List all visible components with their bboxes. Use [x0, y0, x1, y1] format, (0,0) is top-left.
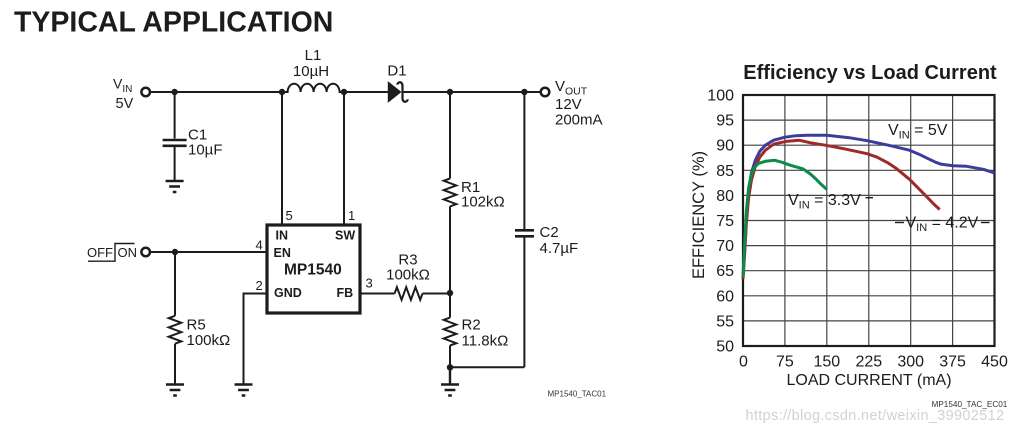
diode D1: [388, 82, 407, 102]
wire GND pin to ground: [244, 294, 268, 384]
svg-text:ON: ON: [118, 245, 138, 260]
capacitor C2: [515, 230, 534, 367]
chart curve VIN 3.3V green: [743, 160, 827, 276]
svg-text:50: 50: [716, 339, 734, 356]
svg-text:85: 85: [716, 163, 734, 180]
svg-text:102kΩ: 102kΩ: [461, 194, 505, 211]
inductor L1: [282, 84, 344, 92]
node EN terminal: [141, 248, 150, 257]
svg-text:GND: GND: [274, 286, 302, 300]
svg-text:3: 3: [366, 276, 373, 291]
node R1 label: [461, 179, 505, 211]
node schematic ref MP1540_TAC01: [548, 390, 607, 399]
svg-text:95: 95: [716, 113, 734, 130]
resistor R3: [395, 287, 423, 300]
svg-text:Efficiency vs Load Current: Efficiency vs Load Current: [743, 62, 997, 84]
chart plot border: [743, 95, 995, 346]
chart y axis title EFFICIENCY: [690, 151, 708, 279]
node GND pin text: [274, 286, 302, 300]
ground R2: [441, 367, 459, 395]
wire L1 to D1: [344, 91, 389, 93]
svg-text:5: 5: [286, 208, 293, 223]
node curve label VIN 4.2V: [895, 215, 990, 235]
svg-text:VIN: VIN: [113, 76, 132, 96]
svg-text:75: 75: [776, 354, 794, 371]
node MP1540 text: [284, 262, 342, 279]
wire bottom to C2: [450, 366, 524, 368]
node junction R2 bottom: [447, 364, 453, 370]
svg-text:VOUT: VOUT: [555, 78, 588, 98]
node pin label 2: [256, 278, 263, 293]
svg-text:VIN = 5V: VIN = 5V: [888, 122, 948, 142]
node pin label 4: [256, 238, 263, 253]
chart y axis labels: [707, 88, 734, 356]
svg-text:0: 0: [739, 354, 748, 371]
wire R2 to ground node: [449, 346, 451, 368]
resistor R2: [444, 318, 457, 346]
node pin label 3: [366, 276, 373, 291]
svg-text:MP1540_TAC01: MP1540_TAC01: [548, 390, 607, 399]
node C1 label: [188, 127, 223, 159]
svg-text:90: 90: [716, 138, 734, 155]
svg-text:225: 225: [855, 354, 882, 371]
svg-text:10µF: 10µF: [188, 142, 223, 159]
node EN pin text: [274, 246, 291, 260]
svg-text:EFFICIENCY (%): EFFICIENCY (%): [690, 151, 708, 279]
svg-text:100: 100: [707, 88, 734, 105]
svg-text:4.7µF: 4.7µF: [540, 240, 579, 257]
node OFF/ON label: [87, 244, 137, 262]
svg-text:70: 70: [716, 238, 734, 255]
ground GND pin: [235, 385, 253, 396]
wire C1 top lead: [174, 92, 176, 139]
node SW pin text: [335, 229, 355, 243]
svg-text:65: 65: [716, 263, 734, 280]
wire D1 to VOUT: [403, 91, 541, 93]
svg-text:R2: R2: [462, 317, 481, 334]
svg-text:EN: EN: [274, 246, 291, 260]
svg-text:MP1540: MP1540: [284, 262, 342, 279]
svg-text:55: 55: [716, 313, 734, 330]
svg-text:SW: SW: [335, 229, 355, 243]
chart curve VIN 5V blue: [743, 135, 995, 278]
capacitor C1: [163, 140, 187, 180]
node junction R5: [172, 249, 178, 255]
node L1 label: [293, 47, 329, 80]
chart curve VIN 4.2V red: [743, 140, 940, 279]
chart grid: [743, 95, 995, 346]
svg-text:LOAD CURRENT (mA): LOAD CURRENT (mA): [786, 372, 951, 389]
node junction L1 right: [341, 89, 347, 95]
svg-text:1: 1: [348, 208, 355, 223]
svg-text:4: 4: [256, 238, 263, 253]
wire R5 to ground: [174, 344, 176, 384]
node C2 label: [540, 224, 579, 257]
chart title Efficiency vs Load Current: [743, 62, 997, 84]
node curve label VIN 5V: [888, 122, 948, 142]
svg-text:200mA: 200mA: [555, 112, 603, 129]
wire pin1 SW lead: [343, 92, 345, 225]
wire R5 upper lead: [174, 252, 176, 316]
node IN pin text: [276, 229, 289, 243]
node VOUT terminal: [541, 88, 550, 97]
svg-text:L1: L1: [305, 47, 322, 64]
wire C2 upper lead: [523, 92, 525, 229]
node chart ref MP1540_TAC_EC01: [932, 400, 1008, 409]
svg-text:300: 300: [897, 354, 924, 371]
svg-text:100kΩ: 100kΩ: [187, 332, 231, 349]
svg-text:80: 80: [716, 188, 734, 205]
wire FB pin to R3: [360, 293, 395, 295]
wire R1 to FB node: [449, 206, 451, 293]
ground C1: [166, 181, 184, 192]
node R3 label: [386, 252, 430, 284]
wire FB node to R2: [449, 293, 451, 318]
wire VIN to L1: [150, 91, 282, 93]
svg-text:450: 450: [981, 354, 1008, 371]
node VIN label: [113, 76, 134, 113]
resistor R5: [169, 316, 182, 344]
svg-text:5V: 5V: [116, 96, 134, 112]
node junction C1: [171, 89, 177, 95]
svg-text:11.8kΩ: 11.8kΩ: [462, 333, 509, 350]
node junction L1 left: [279, 89, 285, 95]
node curve label VIN 3.3V: [788, 192, 873, 212]
chart x axis labels: [739, 354, 1008, 371]
svg-text:R5: R5: [187, 317, 206, 334]
svg-text:OFF: OFF: [87, 245, 113, 260]
svg-text:TYPICAL APPLICATION: TYPICAL APPLICATION: [14, 7, 333, 39]
ground R5: [166, 385, 184, 396]
wire R3 to FB node: [423, 293, 451, 295]
node R5 label: [187, 317, 231, 350]
svg-text:150: 150: [813, 354, 840, 371]
svg-text:60: 60: [716, 288, 734, 305]
IC U1 MP1540 box: [267, 225, 360, 313]
node R2 label: [462, 317, 509, 350]
wire EN terminal to IC: [150, 251, 267, 253]
svg-text:C2: C2: [540, 224, 559, 241]
svg-text:10µH: 10µH: [293, 63, 329, 80]
node pin label 5: [286, 208, 293, 223]
wire R1 branch upper: [449, 92, 451, 179]
svg-text:2: 2: [256, 278, 263, 293]
wire pin5 IN lead: [281, 92, 283, 225]
node D1 label: [387, 63, 406, 80]
node FB pin text: [337, 286, 354, 300]
svg-text:FB: FB: [337, 286, 354, 300]
svg-text:IN: IN: [276, 229, 289, 243]
node junction R1 top: [447, 89, 453, 95]
node watermark: [746, 408, 1005, 424]
svg-text:https://blog.csdn.net/weixin_3: https://blog.csdn.net/weixin_39902512: [746, 408, 1005, 424]
svg-text:12V: 12V: [555, 96, 582, 113]
svg-text:VIN = 4.2V: VIN = 4.2V: [906, 215, 979, 235]
node junction C2 top: [521, 89, 527, 95]
resistor R1: [444, 179, 457, 207]
node junction FB: [447, 290, 453, 296]
svg-text:75: 75: [716, 213, 734, 230]
node VIN terminal: [141, 88, 150, 97]
node pin label 1: [348, 208, 355, 223]
svg-text:100kΩ: 100kΩ: [386, 267, 430, 284]
chart x axis title LOAD CURRENT: [786, 372, 951, 389]
svg-text:D1: D1: [387, 63, 406, 80]
node VOUT label: [555, 78, 603, 129]
svg-text:375: 375: [939, 354, 966, 371]
